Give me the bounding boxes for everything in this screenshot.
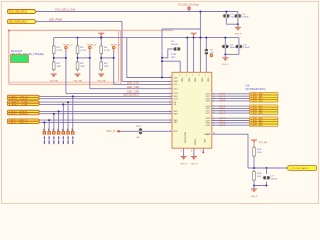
svg-text:LED_CS2: LED_CS2 bbox=[127, 87, 140, 89]
testpoint TP1 bbox=[43, 122, 45, 131]
svg-text:R3,R,R,R: R3,R,R,R bbox=[11, 51, 22, 53]
highlight box inner bbox=[9, 30, 119, 82]
svg-text:VSS_P: VSS_P bbox=[234, 34, 242, 36]
testpoint TP7 bbox=[72, 96, 74, 131]
wire LED_SDI bbox=[40, 95, 172, 97]
resistor R1 top of column 1 bbox=[53, 38, 55, 45]
ground column 1 bbox=[51, 73, 57, 75]
svg-text:10K: 10K bbox=[257, 176, 262, 178]
testpoint TP2 bbox=[48, 120, 50, 131]
no-ERC marker near C6 bbox=[210, 54, 213, 57]
svg-text:9: 9 bbox=[213, 101, 214, 103]
svg-text:1: 1 bbox=[170, 103, 171, 105]
wire LED_SW1 bbox=[40, 110, 172, 112]
svg-text:LED_CLK: LED_CLK bbox=[9, 99, 29, 101]
testpoint TP6 bbox=[67, 102, 69, 131]
wire LED_SEL1 bbox=[40, 119, 172, 121]
power port 3V3_SB bbox=[251, 139, 257, 141]
port 3V3_SB_MCU bbox=[8, 10, 37, 14]
pin FAULT wire bbox=[212, 134, 248, 168]
no-ERC marker column 2 bbox=[89, 46, 92, 49]
svg-text:SE2: SE2 bbox=[174, 122, 178, 124]
svg-text:10K: 10K bbox=[104, 66, 109, 68]
IC bottom pin GND1 bbox=[183, 148, 185, 156]
svg-text:LED_OE: LED_OE bbox=[9, 104, 29, 106]
port block group 1 bbox=[250, 93, 279, 95]
svg-text:10K: 10K bbox=[257, 152, 262, 154]
ground column 3 bbox=[98, 73, 104, 75]
wire OUT9 to port bbox=[212, 120, 250, 122]
ground caps group 2 bbox=[224, 54, 226, 57]
svg-text:VSS_PA: VSS_PA bbox=[74, 80, 83, 83]
wire OUT0 to port bbox=[212, 93, 250, 95]
svg-text:LED_A3: LED_A3 bbox=[251, 124, 264, 127]
svg-text:1: 1 bbox=[170, 80, 171, 82]
wire node column 3 bbox=[100, 55, 102, 60]
svg-text:10K: 10K bbox=[80, 66, 85, 68]
capacitor C4 bbox=[238, 38, 240, 55]
svg-text:100nF: 100nF bbox=[271, 179, 278, 181]
resistor R2 bottom of column 1 bbox=[53, 60, 55, 71]
svg-text:VSS_P: VSS_P bbox=[222, 64, 230, 66]
testpoint TP3 bbox=[53, 114, 55, 132]
svg-text:100nF: 100nF bbox=[230, 47, 237, 49]
capacitor C7 bbox=[266, 168, 268, 174]
port block group 2 bbox=[250, 105, 279, 107]
IC bottom pin GND2 bbox=[193, 148, 195, 156]
svg-text:MOD: MOD bbox=[174, 131, 178, 133]
svg-text:3V3_SB_MCU: 3V3_SB_MCU bbox=[9, 9, 27, 13]
resistor R6 bottom of column 3 bbox=[100, 60, 102, 71]
wire LED_SEL2 bbox=[40, 121, 172, 123]
svg-text:1: 1 bbox=[170, 130, 171, 132]
resistor R15 bbox=[253, 146, 255, 158]
svg-text:NetR1_2: NetR1_2 bbox=[111, 43, 121, 46]
svg-text:7: 7 bbox=[200, 151, 201, 153]
wire OUT1 to port bbox=[212, 95, 250, 97]
svg-text:1: 1 bbox=[170, 97, 171, 99]
svg-text:3V3_SB: 3V3_SB bbox=[259, 142, 268, 144]
wire LED_OE bbox=[40, 103, 172, 105]
svg-text:LED_CS3: LED_CS3 bbox=[127, 92, 140, 94]
svg-text:VSS_P: VSS_P bbox=[180, 163, 188, 165]
wire node column 1 bbox=[53, 55, 55, 60]
svg-text:16V: 16V bbox=[171, 57, 176, 59]
resistor R16 bbox=[253, 170, 255, 182]
svg-text:4.7K: 4.7K bbox=[80, 50, 86, 52]
svg-text:2: 2 bbox=[205, 75, 206, 77]
testpoint TP5 bbox=[62, 104, 64, 131]
green note rectangle bbox=[11, 55, 29, 63]
wire LED_PWM to IC pin 2 bbox=[37, 22, 173, 82]
wire OUT3 to port bbox=[212, 100, 250, 102]
svg-text:1: 1 bbox=[170, 112, 171, 114]
svg-text:1: 1 bbox=[170, 92, 171, 94]
no-ERC marker column 3 bbox=[112, 46, 115, 49]
box corner anchor bbox=[8, 30, 10, 32]
svg-text:OU11: OU11 bbox=[205, 125, 210, 127]
svg-text:VCC_MCU_3V3_Power: VCC_MCU_3V3_Power bbox=[178, 3, 199, 6]
svg-text:9: 9 bbox=[213, 125, 214, 127]
wire vertical to IC top pins bbox=[186, 38, 188, 73]
svg-text:CS2: CS2 bbox=[174, 89, 178, 91]
svg-text:LED_A3: LED_A3 bbox=[251, 112, 264, 115]
svg-text:VDD: VDD bbox=[174, 77, 179, 79]
svg-text:2: 2 bbox=[192, 75, 193, 77]
IC bottom pin NC with no-connect bbox=[202, 148, 204, 152]
svg-text:0R: 0R bbox=[136, 137, 139, 139]
svg-text:CS1: CS1 bbox=[174, 84, 178, 86]
wire net to IC column 2 bbox=[90, 88, 172, 90]
svg-text:2: 2 bbox=[199, 75, 200, 77]
svg-text:NetR1_2: NetR1_2 bbox=[63, 43, 73, 46]
port LED_PWM bbox=[8, 20, 37, 24]
svg-text:100nF: 100nF bbox=[242, 17, 249, 19]
op IC U2 body bbox=[172, 72, 212, 148]
ground caps group 1 bbox=[237, 24, 239, 27]
wire OUT5 to port bbox=[212, 107, 250, 109]
svg-text:SW2: SW2 bbox=[174, 114, 178, 116]
port LED_FAULT out bbox=[287, 166, 317, 171]
port LED_LE bbox=[8, 101, 41, 103]
svg-text:VSS_P: VSS_P bbox=[190, 163, 198, 165]
ground column 2 bbox=[75, 73, 81, 75]
svg-text:1: 1 bbox=[170, 121, 171, 123]
resistor R3 top of column 2 bbox=[77, 38, 79, 45]
svg-text:CS3: CS3 bbox=[174, 93, 178, 95]
svg-text:NetR1_2: NetR1_2 bbox=[87, 43, 97, 46]
wire C5 left loop bbox=[162, 49, 173, 58]
capacitor C3 bbox=[224, 38, 226, 55]
wire OUT4 to port bbox=[212, 105, 250, 107]
svg-text:2: 2 bbox=[186, 75, 187, 77]
port LED_SEL2 bbox=[8, 121, 41, 123]
wire LED_LE bbox=[40, 101, 172, 103]
svg-text:1: 1 bbox=[170, 76, 171, 78]
svg-text:X7R: X7R bbox=[171, 54, 176, 56]
svg-text:VCC_P: VCC_P bbox=[106, 131, 116, 133]
resistor R5 top of column 3 bbox=[100, 38, 102, 45]
wire net to IC column 3 bbox=[114, 83, 172, 85]
wire VDD loop to pin1 bbox=[127, 38, 172, 78]
wire OU11 to port bbox=[212, 124, 250, 126]
svg-text:LED_SEL2: LED_SEL2 bbox=[9, 122, 30, 124]
svg-text:6: 6 bbox=[191, 151, 192, 153]
svg-text:PWM: PWM bbox=[174, 81, 178, 83]
power port VCC on rail bbox=[98, 32, 104, 34]
port LED_SW1 bbox=[8, 110, 41, 112]
svg-text:VSS_PA: VSS_PA bbox=[50, 80, 59, 83]
svg-text:LED_SW2: LED_SW2 bbox=[9, 114, 30, 116]
power port VCC mid bbox=[191, 32, 197, 34]
wire VCC distribution rail bbox=[54, 37, 239, 39]
svg-text:2: 2 bbox=[179, 75, 180, 77]
svg-text:LED_CS1: LED_CS1 bbox=[127, 83, 140, 85]
ground divider bbox=[253, 186, 255, 189]
svg-text:10K: 10K bbox=[57, 66, 62, 68]
wire caps bottom bus bbox=[226, 23, 238, 25]
testpoint TP4 bbox=[58, 111, 60, 131]
svg-text:SCT2024CSOG: SCT2024CSOG bbox=[246, 88, 266, 91]
wire node to port bbox=[248, 167, 287, 169]
port LED_SDI bbox=[8, 95, 41, 97]
port LED_CLK bbox=[8, 98, 41, 100]
svg-text:VCC_LED_FAULT: VCC_LED_FAULT bbox=[291, 167, 309, 170]
svg-text:LED_PWM_MCU: LED_PWM_MCU bbox=[9, 20, 27, 24]
svg-text:OUT7: OUT7 bbox=[205, 113, 210, 115]
wire OUT8 to port bbox=[212, 117, 250, 119]
port block group 3 bbox=[250, 117, 279, 119]
capacitor C1 bbox=[225, 12, 227, 25]
no-ERC marker column 1 bbox=[65, 46, 68, 49]
svg-text:LED_PWM: LED_PWM bbox=[49, 19, 62, 22]
wire OUT6 to port bbox=[212, 110, 250, 112]
capacitor C2 bbox=[237, 12, 239, 25]
svg-text:1: 1 bbox=[170, 83, 171, 85]
capacitor C6 series on pin wire bbox=[205, 38, 207, 73]
svg-text:VSS_P: VSS_P bbox=[251, 196, 259, 198]
svg-text:9: 9 bbox=[213, 113, 214, 115]
wire LED_CLK bbox=[40, 98, 172, 100]
svg-text:VSS_PA: VSS_PA bbox=[97, 80, 106, 83]
svg-text:LED_A3: LED_A3 bbox=[251, 100, 264, 103]
svg-text:4.7K: 4.7K bbox=[104, 50, 110, 52]
highlight box outer bbox=[9, 30, 121, 84]
wire caps group2 bottom bus bbox=[225, 53, 239, 55]
resistor R4 bottom of column 2 bbox=[77, 60, 79, 71]
wire LED_SW2 bbox=[40, 113, 172, 115]
port LED_SW2 bbox=[8, 113, 41, 115]
svg-text:VCC_MCU_3V3: VCC_MCU_3V3 bbox=[55, 9, 76, 12]
wire OUT7 to port bbox=[212, 112, 250, 114]
wire OUT2 to port bbox=[212, 98, 250, 100]
svg-text:OUT3: OUT3 bbox=[205, 101, 210, 103]
ferrite bead FB1 bbox=[140, 128, 142, 135]
svg-text:4.7K: 4.7K bbox=[57, 50, 63, 52]
wire net to IC column 1 bbox=[66, 92, 172, 94]
svg-text:GND: GND bbox=[194, 139, 196, 146]
svg-text:100nF: 100nF bbox=[243, 47, 250, 49]
wire node column 2 bbox=[77, 55, 79, 60]
wire OU10 to port bbox=[212, 122, 250, 124]
svg-text:13: 13 bbox=[213, 133, 215, 135]
wire to MODE pin bbox=[121, 130, 172, 132]
svg-text:100nF: 100nF bbox=[171, 44, 179, 46]
port LED_SEL1 bbox=[8, 119, 41, 121]
svg-text:MODESEL: MODESEL bbox=[183, 132, 185, 144]
svg-text:LED_SDI_MCU: LED_SDI_MCU bbox=[123, 95, 138, 97]
wire bottom bus bbox=[254, 182, 267, 186]
svg-text:1: 1 bbox=[170, 87, 171, 89]
port LED_OE bbox=[8, 103, 41, 105]
wire C5 right to pin bbox=[162, 61, 180, 72]
wire VCC top rail bbox=[37, 11, 238, 13]
svg-text:5: 5 bbox=[181, 151, 182, 153]
